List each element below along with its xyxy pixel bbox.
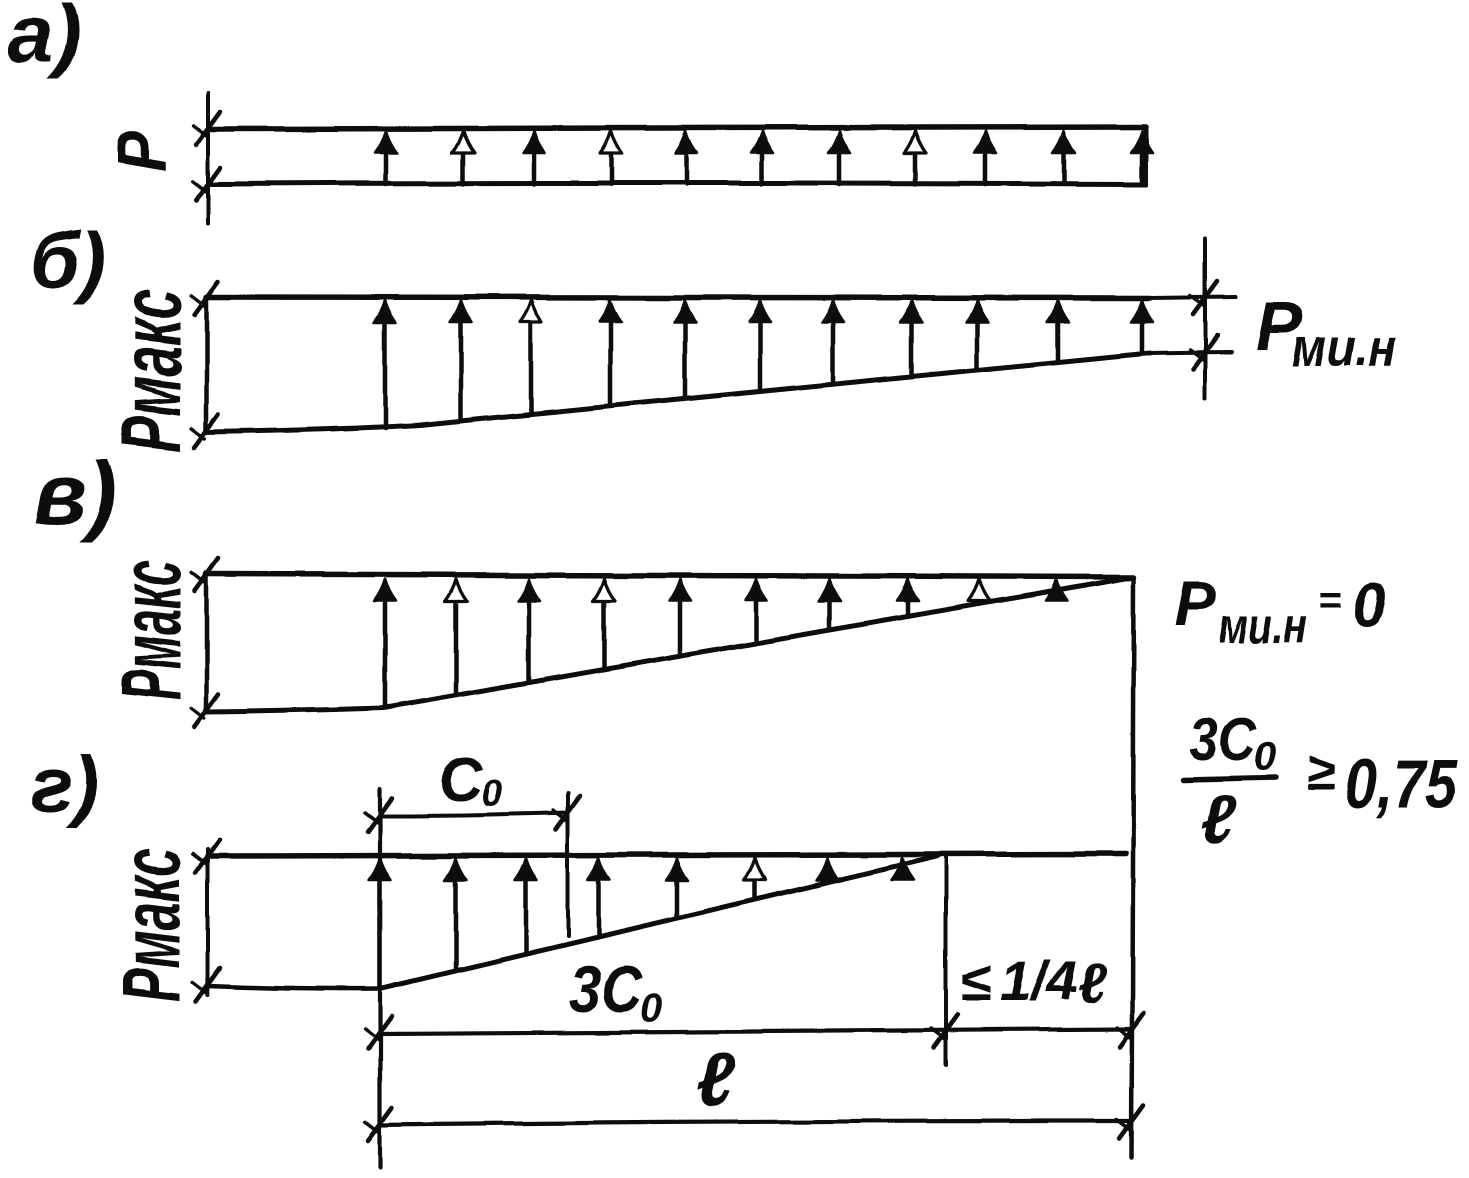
- svg-text:0: 0: [640, 987, 662, 1031]
- svg-text:Рмакс: Рмакс: [105, 848, 199, 1002]
- svg-text:Р: Р: [103, 131, 181, 172]
- svg-text:С: С: [438, 746, 484, 815]
- svg-text:ℓ: ℓ: [1200, 782, 1236, 858]
- svg-text:0: 0: [1352, 571, 1386, 640]
- svg-text:в): в): [34, 444, 116, 543]
- svg-text:б): б): [30, 216, 106, 305]
- svg-text:ми.н: ми.н: [1292, 318, 1396, 378]
- svg-text:а): а): [8, 0, 81, 80]
- svg-text:≥: ≥: [1307, 743, 1336, 801]
- svg-text:ℓ: ℓ: [1078, 951, 1108, 1014]
- svg-text:3С: 3С: [1190, 706, 1257, 773]
- svg-text:0,75: 0,75: [1345, 745, 1458, 823]
- svg-text:3С: 3С: [570, 952, 643, 1026]
- svg-text:Рмакс: Рмакс: [105, 560, 199, 700]
- svg-text:ми.н: ми.н: [1218, 598, 1307, 654]
- svg-text:0: 0: [481, 773, 502, 815]
- svg-text:0: 0: [1254, 735, 1276, 779]
- svg-text:1/4: 1/4: [1000, 949, 1078, 1012]
- svg-text:≤: ≤: [960, 949, 991, 1012]
- svg-text:Рмакс: Рмакс: [105, 289, 199, 452]
- svg-text:ℓ: ℓ: [696, 1038, 736, 1123]
- svg-text:Р: Р: [1174, 567, 1217, 639]
- svg-text:=: =: [1318, 578, 1341, 622]
- svg-text:г): г): [30, 740, 99, 829]
